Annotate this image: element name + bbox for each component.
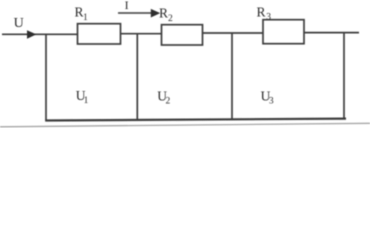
svg-text:2: 2 [166,96,171,106]
svg-text:3: 3 [269,96,274,106]
svg-text:3: 3 [266,12,271,22]
svg-text:R: R [159,6,168,21]
svg-text:I: I [125,0,129,12]
svg-text:R: R [257,5,266,20]
svg-text:U: U [14,16,24,31]
svg-text:1: 1 [84,96,89,106]
svg-text:1: 1 [83,13,88,23]
svg-text:2: 2 [168,14,173,24]
